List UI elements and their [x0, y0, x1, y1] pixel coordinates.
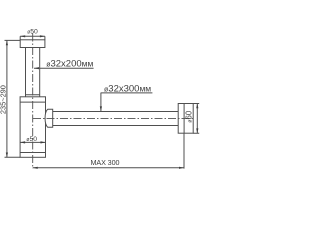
- svg-text:ø50: ø50: [26, 136, 37, 143]
- svg-text:ø60: ø60: [185, 110, 194, 122]
- svg-text:235~290: 235~290: [0, 85, 8, 114]
- svg-text:MAX 300: MAX 300: [91, 158, 120, 167]
- svg-text:ø32x200мм: ø32x200мм: [46, 59, 93, 70]
- svg-text:ø50: ø50: [27, 28, 38, 35]
- svg-text:ø32x300мм: ø32x300мм: [104, 83, 151, 94]
